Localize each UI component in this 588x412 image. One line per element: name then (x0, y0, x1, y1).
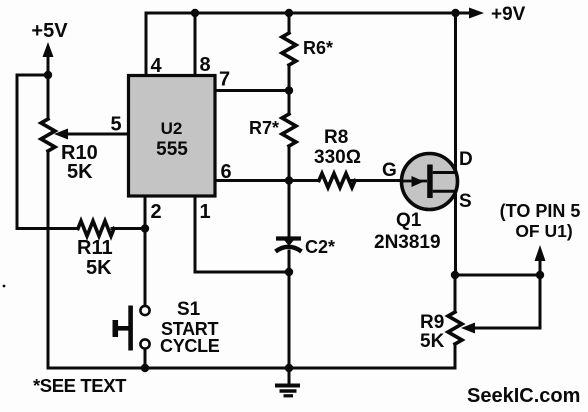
svg-text:R9: R9 (420, 312, 444, 333)
svg-text:7: 7 (219, 69, 230, 91)
wire R6 branch top (288, 13, 291, 33)
node dot pin1 C2 (285, 268, 293, 276)
wire left drop (16, 75, 19, 229)
wire bottom rail (48, 367, 455, 370)
arrow +9V (469, 8, 484, 19)
wire R6 to pin7 node (288, 65, 291, 114)
svg-text:S: S (459, 191, 472, 212)
wire source node row (455, 274, 540, 277)
wire to-pin5 arrow stem (539, 261, 542, 275)
wire R7 to pin6 node (288, 146, 291, 181)
svg-text:C2*: C2* (305, 237, 335, 257)
wire R10 top (47, 75, 50, 119)
resistor R11 (78, 221, 114, 236)
wire +5V stem (47, 57, 50, 75)
transistor Q1 body (402, 154, 458, 210)
resistor R6 (282, 33, 296, 65)
resistor R9 (448, 312, 462, 344)
svg-text:R11: R11 (77, 237, 113, 259)
wire pin6 node to C2 (288, 181, 291, 237)
wire Q1 right vertical (454, 13, 457, 275)
wire pin 2 down (144, 196, 147, 229)
node dot ground rail (285, 364, 293, 372)
wire R10 bottom to ground rail (47, 151, 50, 368)
wire C2 to ground rail (288, 251, 291, 368)
arrow R10 wiper (54, 129, 68, 140)
svg-text:1: 1 (199, 201, 210, 223)
ground (275, 386, 300, 396)
wire R9 wiper to right (474, 327, 540, 330)
svg-text:CYCLE: CYCLE (160, 336, 220, 356)
wire R8 to gate (351, 179, 427, 182)
wire R9 bottom (454, 344, 457, 368)
resistor R7 (282, 114, 296, 146)
svg-text:G: G (382, 160, 397, 181)
svg-text:R8: R8 (324, 127, 348, 148)
wire R9 top (454, 275, 457, 312)
wire pin 6 to R8 (213, 179, 319, 182)
svg-text:555: 555 (156, 139, 188, 160)
wire pin1 to C2 node (195, 271, 289, 274)
wire pin 4 to rail (145, 13, 148, 76)
svg-text:5: 5 (110, 114, 121, 136)
node dot pin7 R6R7 (285, 86, 293, 94)
node dot +5V junction (44, 71, 52, 79)
node dot +9V rail (451, 9, 459, 17)
wire pin2 node to S1 (144, 229, 147, 306)
wire +5V node to left drop (17, 74, 48, 77)
svg-text:5K: 5K (420, 331, 445, 352)
wire ground stem (288, 368, 291, 384)
svg-text:Q1: Q1 (396, 210, 422, 231)
svg-text:+5V: +5V (31, 20, 68, 42)
node dot source R9 (451, 271, 459, 279)
svg-text:4: 4 (150, 55, 162, 77)
svg-text:(TO PIN 5: (TO PIN 5 (500, 201, 581, 221)
capacitor C2 (276, 239, 302, 252)
arrow R9 wiper (461, 323, 475, 334)
node dot R6 rail (285, 9, 293, 17)
svg-text:2N3819: 2N3819 (374, 232, 441, 253)
svg-text:R7*: R7* (249, 118, 279, 138)
wire wiper up to node (539, 275, 542, 328)
arrow to pin 5 of U1 (535, 245, 546, 261)
svg-text:D: D (459, 149, 473, 170)
svg-text:*SEE TEXT: *SEE TEXT (33, 375, 127, 396)
switch S1 (113, 306, 150, 351)
svg-text:8: 8 (199, 54, 210, 76)
wire pin 8 to rail (194, 13, 197, 76)
svg-text:5K: 5K (67, 161, 93, 183)
wire pin 1 down (194, 196, 197, 272)
svg-text:SeekIC.com: SeekIC.com (467, 385, 580, 407)
speck artifact (3, 285, 6, 288)
svg-text:+9V: +9V (491, 4, 526, 25)
resistor R10 (41, 119, 55, 151)
svg-text:S1: S1 (177, 299, 201, 320)
svg-text:2: 2 (150, 201, 161, 223)
wire pin 7 (213, 89, 289, 92)
wire R11 to pin2 node (112, 227, 145, 230)
node dot S1 rail (141, 364, 149, 372)
op-amp U2 555 IC body (129, 76, 216, 197)
svg-text:5K: 5K (86, 257, 112, 279)
node dot pin8 rail (191, 9, 199, 17)
arrow +5V (43, 42, 54, 57)
wire to R11 (17, 227, 78, 230)
svg-text:R6*: R6* (303, 38, 333, 58)
wire pin 5 to R10 wiper (66, 133, 129, 136)
svg-text:6: 6 (220, 161, 231, 183)
resistor R8 (319, 174, 355, 188)
node dot wiper column (536, 271, 544, 279)
svg-text:OF U1): OF U1) (515, 221, 572, 241)
svg-text:330Ω: 330Ω (314, 147, 361, 168)
node dot pin2 R11 (141, 224, 149, 232)
wire top +9V rail (146, 12, 471, 15)
wire S1 to rail (144, 349, 147, 368)
svg-text:U2: U2 (161, 119, 183, 138)
node dot pin6 R7 (285, 176, 293, 184)
